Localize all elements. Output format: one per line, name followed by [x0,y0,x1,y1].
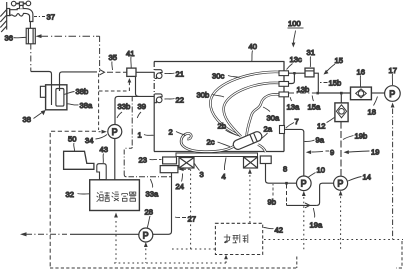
label 27 [175,215,196,224]
control dashed to 41 [99,74,132,131]
label 7 [286,117,299,128]
wall hatching [0,2,6,32]
control bus bottom inner [114,257,297,269]
label 13a [287,97,300,111]
connector 22 [155,94,163,103]
label 13c [287,55,302,70]
wire 13c to 31 [289,72,306,74]
endoscope tube 30b [224,83,280,137]
wall fitting 7 [280,126,285,134]
wire 33b horizontal to 22 [115,96,154,124]
wire 13a dashdot main [289,92,317,94]
label 9a [305,136,325,145]
svg-text:9b: 9b [268,198,276,207]
svg-text:50: 50 [68,135,76,144]
label 36 [5,34,27,43]
drain discharge line left [20,232,139,236]
svg-text:2c: 2c [207,138,215,147]
wire 9 from fitting 7 [285,129,304,176]
label 38 [23,110,46,124]
coupler 36 [26,28,35,44]
label 9b [268,184,276,207]
svg-text:P: P [112,127,118,137]
wire 27 drain from 24 [153,173,172,235]
label 15a [308,96,321,112]
svg-text:9: 9 [330,148,334,157]
endoscope tube 30c [210,72,280,135]
control dashed P14 [339,191,343,251]
wire 13b riser [289,73,295,83]
label 16 [357,68,365,87]
svg-text:7: 7 [295,117,299,126]
svg-text:23: 23 [139,156,147,165]
wire 39 dashdot [124,96,171,176]
label 23 [139,156,162,165]
wall fitting 13a [279,92,289,97]
svg-text:38a: 38a [80,101,93,110]
junction 13c/13b [293,72,295,74]
svg-text:4: 4 [222,172,226,181]
tank 50 [64,151,94,169]
svg-text:16: 16 [357,68,365,77]
wall fitting 13c [279,71,289,76]
filter 12 [335,103,348,122]
svg-text:28: 28 [145,208,153,217]
control arrow into P34 [99,130,107,134]
wire 41 to 21 [136,71,154,73]
label 100 [288,19,304,48]
svg-text:27: 27 [188,215,196,224]
label 12 [317,118,334,131]
svg-text:100: 100 [288,19,301,28]
label 34 [85,135,107,146]
label 2b [218,122,240,137]
label 21 [165,70,184,79]
wire P34 to container 32 [114,139,116,180]
label 10 [309,166,325,178]
svg-text:39: 39 [138,102,146,111]
label 4 [222,158,227,182]
svg-text:30a: 30a [267,114,280,123]
svg-text:30c: 30c [212,72,224,81]
wire 38b out to 41 [60,72,98,91]
control dashed into 32 bottom [114,213,118,264]
svg-text:12: 12 [317,122,325,131]
endoscope connector body 2a [232,130,266,152]
label 2a [261,125,273,140]
container 38 [40,85,66,110]
flow arrow on water line [100,70,105,75]
svg-text:15: 15 [335,56,343,65]
svg-text:30b: 30b [197,91,210,100]
label 19b [343,132,367,141]
label 19 [344,148,380,157]
label 28 [145,208,153,228]
label 32 [66,190,90,199]
pump P10 [297,176,312,191]
svg-text:2a: 2a [264,125,273,134]
svg-text:15a: 15a [308,103,321,112]
label 39 [137,102,146,118]
label 35 [109,53,117,70]
svg-text:21: 21 [176,70,184,79]
svg-text:37: 37 [47,13,55,22]
faucet 37 [7,1,33,21]
connector 21 [155,70,163,79]
label 37 [34,13,55,22]
svg-text:13b: 13b [297,85,310,94]
wire 36 down dashdot [30,44,32,72]
svg-text:19a: 19a [310,221,323,230]
fitting 24 [160,166,178,173]
svg-text:35: 35 [109,53,117,62]
control arrow into 42 bottom [224,255,228,263]
svg-text:10: 10 [317,166,325,175]
svg-text:14: 14 [363,173,371,182]
label 3 [195,164,204,180]
valve 4 xbox [244,157,258,168]
wire 31 to main [314,73,318,93]
junction dot 8 [285,182,288,185]
svg-text:18: 18 [368,108,376,117]
label 1 [138,131,154,140]
pump P17 [385,86,401,102]
svg-text:1: 1 [138,131,142,140]
text disinfectant container (fake CJK) [97,192,137,202]
container 32 [90,180,140,211]
svg-text:34: 34 [85,136,93,145]
label 9 [306,148,334,157]
controller 42 [215,223,262,254]
label 31 [307,48,315,67]
label 50 [68,135,76,152]
svg-text:36: 36 [5,34,13,43]
svg-text:P: P [143,230,149,240]
label 41 [126,49,134,68]
svg-text:P: P [337,179,343,189]
label 33a [146,179,159,199]
valve 41 [127,68,136,76]
label 33b [117,102,130,118]
dashed unit enclosure 50-area [50,131,96,268]
enclosure bottom outer [50,241,402,268]
wire 19 down to P14 [340,122,342,176]
svg-text:13a: 13a [287,103,300,112]
svg-text:P: P [389,89,395,99]
svg-text:42: 42 [275,226,283,235]
wire dashed into 41 [107,71,127,73]
label 38b [65,87,89,96]
svg-text:43: 43 [100,145,108,154]
endoscope tube 30a [247,94,281,137]
wire 36 right path down [99,36,101,72]
label 22 [165,96,184,105]
control bus right [264,239,403,241]
svg-text:31: 31 [307,48,315,57]
label 15b [320,79,341,88]
svg-text:P: P [301,179,307,189]
drain valve 3 [179,158,194,169]
label 38a [68,101,93,110]
svg-text:3: 3 [200,170,204,179]
wire 41 down to 22 line [136,76,139,96]
svg-text:9a: 9a [316,136,325,145]
label 2c [207,138,231,147]
control dashed P10 [302,191,306,250]
label 30a [263,107,280,123]
control dashed into P28 [144,242,148,263]
label 2 [169,128,186,137]
junction dot 15b [316,92,319,95]
svg-text:32: 32 [66,190,74,199]
wire 8 down to P10 [266,164,297,184]
basin 40 [154,62,285,152]
endoscope coil 2 [181,133,233,151]
svg-text:13c: 13c [290,55,302,64]
junction dot 12 [340,92,343,95]
text control part (fake CJK) [224,234,248,243]
svg-text:22: 22 [176,96,184,105]
label 30c [212,72,240,81]
label 15 [324,56,343,75]
label 42 [264,226,283,235]
wire main to 16 [319,92,351,94]
svg-text:38b: 38b [76,87,89,96]
svg-text:38: 38 [23,115,31,124]
svg-text:15b: 15b [329,79,342,88]
wire 12 riser [340,94,342,103]
svg-text:19: 19 [371,148,379,157]
svg-text:33a: 33a [146,190,159,199]
wire 16 to P17 [371,92,384,94]
svg-text:24: 24 [176,182,184,191]
control dashdot P17 [391,103,395,240]
pump P28 [139,228,153,242]
label 17 [389,66,397,85]
fitting 8 [260,156,271,164]
label 19a [310,208,323,230]
fitting 23 [163,157,177,164]
label 40 [249,42,257,62]
wall fitting 13b [279,82,289,87]
label 24 [176,174,184,192]
svg-text:2b: 2b [218,122,226,131]
svg-text:2: 2 [169,128,173,137]
svg-text:40: 40 [249,42,257,51]
control dashed valve4 [248,169,252,224]
label 14 [348,173,371,182]
wire spout to box36 [29,22,31,29]
valve 31 [305,68,314,77]
arrow into 36 [36,34,100,38]
fitting 43 [97,164,106,180]
label 18 [368,97,378,117]
svg-text:17: 17 [389,66,397,75]
control arrow into 24 [172,167,215,249]
pump P34 [108,125,122,139]
svg-text:8: 8 [283,165,287,174]
svg-text:33b: 33b [118,102,131,111]
wire 19a bypass [287,183,334,208]
pump P14 [334,176,348,190]
label 30b [197,91,225,100]
svg-text:41: 41 [126,49,134,58]
wire fill tube to 38 [31,72,52,106]
check valve 16 [351,87,372,100]
floor tray 4 [176,153,258,157]
svg-text:19b: 19b [355,132,368,141]
label 43 [100,145,108,163]
